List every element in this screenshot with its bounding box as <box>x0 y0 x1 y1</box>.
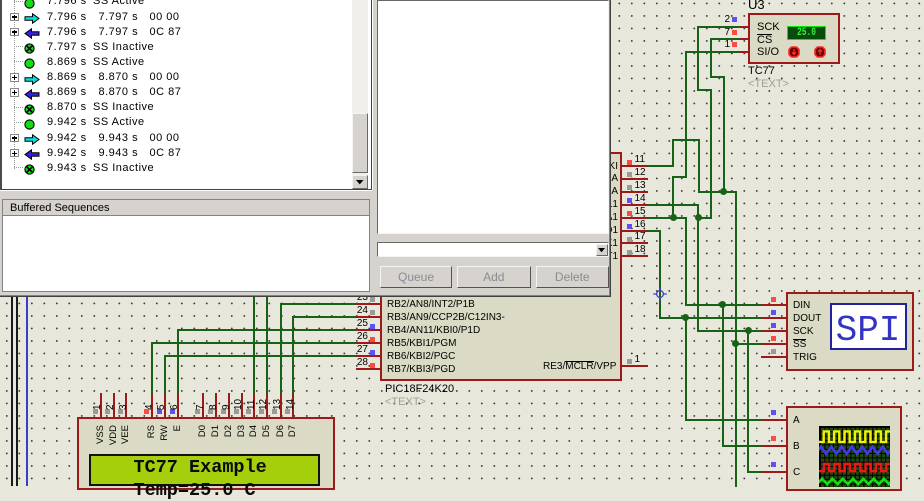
pin name LCD RS <box>147 425 157 451</box>
pin state square LCD pin 9 <box>221 409 226 414</box>
pin number TC77 pin 2 <box>700 15 730 25</box>
button Add <box>457 266 531 288</box>
pin state square PIC pin 13 <box>627 185 632 190</box>
channel C red square wave <box>819 463 890 470</box>
PIC pin label RB5 <box>387 338 456 349</box>
PIC pin label RC7/RX1/DT1 <box>417 251 618 262</box>
wire E h pin25 <box>177 329 358 331</box>
pin state square LCD pin 12 <box>259 409 264 414</box>
pin number LCD 4 <box>145 404 155 410</box>
pin number LCD 13 <box>273 398 283 409</box>
pin stub LCD pin 1 VSS <box>100 393 102 419</box>
pin stub LCD pin 4 RS <box>151 393 153 419</box>
pin state square SPI SCK <box>771 323 776 328</box>
pin state square PIC pin 16 <box>627 224 632 229</box>
junction SCK-RC3 <box>695 214 702 221</box>
pin number PIC pin 24 <box>338 306 368 316</box>
pin stub PIC pin 17 <box>621 242 648 244</box>
pin state square TC77 pin 7 <box>732 30 737 35</box>
pin stub scope C <box>761 471 788 473</box>
pin name LCD D6 <box>276 425 286 451</box>
pin stub LCD pin 13 D6 <box>280 393 282 419</box>
SPI logo text <box>830 306 907 356</box>
pin stub PIC pin 15 <box>621 217 648 219</box>
pin stub LCD pin 3 VEE <box>125 393 127 419</box>
junction SIO-RC4 <box>670 214 677 221</box>
pin state square LCD pin 13 <box>272 409 277 414</box>
pin name LCD VEE <box>121 425 131 451</box>
wire SCK c <box>697 89 712 91</box>
pin stub PIC pin 12 <box>621 178 648 180</box>
event row 9.942 s 9.943 s 0C 87 <box>2 145 354 160</box>
wire RC5 down <box>659 230 661 319</box>
pin number LCD 5 <box>157 404 167 410</box>
wire SCK e <box>697 217 712 219</box>
pin state square LCD pin 5 <box>157 409 162 414</box>
PIC pin label RB7 <box>387 364 455 375</box>
list scrollbar <box>352 0 368 189</box>
pin number PIC pin 15 <box>635 207 646 217</box>
pin state square PIC pin 1 <box>627 359 632 364</box>
PIC pin label RE3/MCLR/VPP <box>543 361 616 372</box>
event row 8.870 s SS Inactive <box>2 100 354 115</box>
wire DOUT <box>659 317 762 319</box>
LCD display body <box>77 417 335 490</box>
wire SCK a <box>697 26 741 28</box>
pin name LCD E <box>173 425 183 451</box>
wire CS d <box>723 76 725 193</box>
TC77 up button <box>814 46 826 58</box>
PIC pin label RB6 <box>387 351 455 362</box>
wire SCK b <box>697 26 699 91</box>
queue display panel <box>377 0 609 234</box>
pin state square PIC pin 24 <box>370 310 375 315</box>
event row 7.796 s 7.797 s 00 00 <box>2 9 354 24</box>
pin number LCD 9 <box>222 404 232 410</box>
TC77 down button <box>788 46 800 58</box>
pin stub LCD pin 10 D3 <box>241 393 243 419</box>
pin stub PIC pin 13 <box>621 191 648 193</box>
event row 7.797 s SS Inactive <box>2 39 354 54</box>
PIC pin label RC6/TX1/CK1 <box>417 238 618 249</box>
TC77 display reading 25.0 <box>792 28 820 39</box>
pin number LCD 8 <box>209 404 219 410</box>
scrollbar thumb <box>352 113 368 173</box>
pin stub LCD pin 8 D1 <box>215 393 217 419</box>
scrollbar down button <box>352 175 368 189</box>
wire RW v <box>164 355 166 393</box>
pin stub LCD pin 14 D7 <box>292 393 294 419</box>
scope channel label A <box>793 415 800 426</box>
wire D7 h pin24 <box>292 316 358 318</box>
PIC pin label RB4 <box>387 325 480 336</box>
event row 9.942 s 9.943 s 00 00 <box>2 130 354 145</box>
wire CS b <box>710 38 712 78</box>
SPI pin label SCK <box>793 326 814 337</box>
pin state square SPI DIN <box>771 297 776 302</box>
pin stub PIC pin 1 <box>621 365 648 367</box>
wire RC5 pin16 <box>647 230 661 232</box>
channel A yellow square wave <box>819 431 890 442</box>
junction CS-RC0 <box>720 188 727 195</box>
pin name LCD RW <box>160 425 170 451</box>
pin number TC77 pin 7 <box>700 28 730 38</box>
pin stub PIC pin 11 <box>621 165 648 167</box>
pin number LCD 14 <box>286 398 296 409</box>
pin stub PIC pin 14 <box>621 204 648 206</box>
wire SCK g SPI <box>697 330 762 332</box>
pin state square PIC pin 28 <box>370 363 375 368</box>
TC77 U3 body <box>748 13 840 64</box>
scope channel label C <box>793 467 800 478</box>
pin number PIC pin 23 <box>338 293 368 303</box>
wire SIO d <box>672 176 674 219</box>
pin state square scope C <box>771 462 776 467</box>
pin name LCD D3 <box>237 425 247 451</box>
event row 8.869 s 8.870 s 0C 87 <box>2 85 354 100</box>
wire RC0 over <box>672 139 700 141</box>
pin number PIC pin 12 <box>635 168 646 178</box>
pin name LCD VSS <box>96 425 106 451</box>
pin stub PIC pin 28 <box>356 368 381 370</box>
pin stub PIC pin 27 <box>356 355 381 357</box>
pin number LCD 10 <box>234 398 244 409</box>
pin stub LCD pin 11 D4 <box>253 393 255 419</box>
pin state square PIC pin 14 <box>627 198 632 203</box>
wire SIO b <box>685 51 687 178</box>
oscilloscope screen <box>819 426 891 488</box>
pin name LCD D0 <box>198 425 208 451</box>
pin state square LCD pin 4 <box>144 409 149 414</box>
TC77 pin label SCK <box>757 22 780 33</box>
pin number PIC pin 14 <box>635 194 646 204</box>
pin state square SPI SS <box>771 336 776 341</box>
pin name LCD VDD <box>109 425 119 451</box>
junction DOUT-scopeA <box>682 314 689 321</box>
TC77 pin label CS (overline) <box>757 34 772 46</box>
wire D7 v <box>292 316 294 394</box>
PIC pin label RB3 <box>387 312 505 323</box>
pin number LCD 12 <box>259 398 269 409</box>
wire DOUT scope <box>685 317 687 421</box>
pin state square LCD pin 2 <box>105 409 110 414</box>
wire SIO h <box>722 304 724 447</box>
SPI logo box <box>830 303 907 350</box>
pin number LCD 1 <box>93 404 103 410</box>
pin stub TC77 pin 1 <box>740 51 750 53</box>
pin state square LCD pin 14 <box>285 409 290 414</box>
pin stub LCD pin 12 D5 <box>266 393 268 419</box>
pin number PIC pin 28 <box>338 358 368 368</box>
pin state square PIC pin 26 <box>370 337 375 342</box>
scope channel label B <box>793 441 800 452</box>
wire RC0 right <box>698 191 737 193</box>
wire RC4 pin15 <box>647 217 674 219</box>
SPI debugger dialog window <box>0 0 610 296</box>
pin number PIC pin 26 <box>338 332 368 342</box>
TC77 name label <box>748 66 775 77</box>
button Delete <box>536 266 610 288</box>
pin number PIC pin 25 <box>338 319 368 329</box>
wire RC3 pin14 <box>647 204 699 206</box>
pin state square TC77 pin 1 <box>732 42 737 47</box>
pin stub scope B <box>761 445 788 447</box>
pin number PIC pin 1 <box>635 355 641 365</box>
event list box <box>0 0 372 190</box>
pin state square TC77 pin 2 <box>732 17 737 22</box>
pin stub PIC pin 25 <box>356 329 381 331</box>
pin stub LCD pin 9 D2 <box>228 393 230 419</box>
pin stub SPI TRIG <box>761 356 788 358</box>
TC77 pin label SI/O <box>757 47 779 58</box>
wire CS c <box>710 76 725 78</box>
pin state square PIC pin 12 <box>627 172 632 177</box>
pin name LCD D5 <box>262 425 272 451</box>
Buffered Sequences panel <box>2 199 370 292</box>
SPI pin label DOUT <box>793 313 821 324</box>
event row 9.943 s SS Inactive <box>2 160 354 175</box>
SPI pin label SS (overline) <box>793 339 806 350</box>
wire SIO i scopeB <box>722 445 762 447</box>
pin state square LCD pin 7 <box>195 409 200 414</box>
event row 7.796 s 7.797 s 0C 87 <box>2 24 354 39</box>
LCD line 2 text (clipped) <box>134 481 256 501</box>
PIC pin label RC3/SCK1/SCL1 <box>417 199 618 210</box>
pin stub SPI SS <box>761 343 788 345</box>
pin number PIC pin 16 <box>635 220 646 230</box>
PIC part number <box>385 384 454 395</box>
SPI debugger body <box>786 292 914 371</box>
sheet border lines bottom-left <box>11 0 13 486</box>
pin number PIC pin 18 <box>635 245 646 255</box>
junction DIN-scopeB <box>719 301 726 308</box>
pin state square SPI DOUT <box>771 310 776 315</box>
pin state square LCD pin 6 <box>170 409 175 414</box>
pin stub SPI DIN <box>761 304 788 306</box>
pin stub LCD pin 7 D0 <box>202 393 204 419</box>
pin number PIC pin 27 <box>338 345 368 355</box>
wire scopeA <box>685 419 762 421</box>
pin stub PIC pin 16 <box>621 230 648 232</box>
pin stub SPI SCK <box>761 330 788 332</box>
scope waveforms <box>819 426 890 487</box>
wire D5 v <box>266 294 268 394</box>
pin number LCD 7 <box>196 404 206 410</box>
pin state square scope B <box>771 436 776 441</box>
wire SCK d <box>710 89 712 219</box>
event row 9.942 s SS Active <box>2 115 354 130</box>
wire D4 v <box>253 294 255 394</box>
LCD screen <box>89 454 320 486</box>
event row 8.869 s 8.870 s 00 00 <box>2 70 354 85</box>
wire E v <box>177 329 179 394</box>
wire RS h pin26 <box>151 342 357 344</box>
wire SCK f <box>697 217 699 332</box>
pin stub TC77 pin 7 <box>740 38 750 40</box>
pin stub PIC pin 24 <box>356 316 381 318</box>
microcontroller U? PIC18F24K20 body <box>380 152 622 381</box>
wire SCK i scopeC <box>747 471 762 473</box>
pin state square SPI TRIG <box>771 349 776 354</box>
pin stub SPI DOUT <box>761 317 788 319</box>
wire RC0 down <box>698 139 700 193</box>
tree connector line <box>14 0 15 170</box>
pin stub TC77 pin 2 <box>740 26 750 28</box>
wire SIO g DIN <box>685 304 762 306</box>
pin number PIC pin 17 <box>635 232 646 242</box>
junction SS-SPI <box>732 340 739 347</box>
wire SCK h scope <box>747 330 749 473</box>
pin stub PIC pin 18 <box>621 255 648 257</box>
pin state square PIC pin 11 <box>627 160 632 165</box>
PIC pin label RC0/T1OSO/T13CKI <box>417 161 618 172</box>
pin stub scope A <box>761 419 788 421</box>
pin state square LCD pin 8 <box>208 409 213 414</box>
pin state square LCD pin 3 <box>118 409 123 414</box>
channel B blue triangle wave <box>815 446 892 453</box>
pin number TC77 pin 1 <box>700 40 730 50</box>
wire RC0 up <box>672 139 674 167</box>
pin state square LCD pin 10 <box>234 409 239 414</box>
wire RC3 drop <box>697 204 699 219</box>
pin number LCD 11 <box>247 399 257 409</box>
pin state square LCD pin 1 <box>93 409 98 414</box>
wire RW h pin27 <box>164 355 358 357</box>
PIC label RB1 clipped row <box>387 286 497 297</box>
pin state square PIC pin 25 <box>370 324 375 329</box>
PIC pin label RC4/SDI1/SDA1 <box>417 212 618 223</box>
wire SIO e <box>672 217 687 219</box>
pin state square PIC pin 27 <box>370 350 375 355</box>
LCD line 1 text <box>134 458 267 478</box>
wire SIO f <box>685 217 687 306</box>
pin stub LCD pin 5 RW <box>164 393 166 419</box>
pin number PIC pin 11 <box>635 155 645 165</box>
junction SCK-scopeC <box>745 327 752 334</box>
event row 7.796 s SS Active <box>2 0 354 9</box>
pin state square LCD pin 11 <box>246 409 251 414</box>
wire D6 h pin23 <box>280 303 359 305</box>
Buffered Sequences header <box>3 200 369 217</box>
SPI pin label DIN <box>793 300 810 311</box>
TC77 TEXT placeholder <box>748 79 789 90</box>
pin stub LCD pin 2 VDD <box>113 393 115 419</box>
wire D6 v <box>280 303 282 394</box>
pin number LCD 2 <box>106 404 116 410</box>
pin state square PIC pin 18 <box>627 250 632 255</box>
U3 reference label <box>748 0 765 11</box>
pin state square PIC pin 23 <box>370 297 375 302</box>
pin stub PIC pin 23 <box>356 303 381 305</box>
pin state square scope A <box>771 410 776 415</box>
pin number PIC pin 13 <box>635 181 646 191</box>
wire SS SPI <box>735 343 762 345</box>
origin marker crosshair <box>652 286 668 302</box>
PIC pin label RC5/SDO1 <box>417 225 618 236</box>
combo drop button <box>596 244 609 256</box>
pin number LCD 6 <box>170 404 180 410</box>
channel D green triangle wave <box>817 478 894 483</box>
pin number LCD 3 <box>119 404 129 410</box>
pin state square PIC pin 17 <box>627 237 632 242</box>
wire CS a <box>710 38 741 40</box>
TC77 LCD display frame <box>787 26 826 41</box>
pin name LCD D4 <box>249 425 259 451</box>
pin name LCD D2 <box>224 425 234 451</box>
pin stub LCD pin 6 E <box>177 393 179 419</box>
wire RC0 pin11 <box>647 165 674 167</box>
oscilloscope body <box>786 406 903 491</box>
entry combo box <box>377 242 609 257</box>
pin name LCD D7 <box>288 425 298 451</box>
PIC pin label RC1/T1OSI/CCP2A <box>417 173 618 184</box>
pin state square PIC pin 15 <box>627 211 632 216</box>
pin name LCD D1 <box>211 425 221 451</box>
PIC pin label RC2/CCP1/P1A <box>417 186 618 197</box>
PIC pin label RB2 <box>387 299 475 310</box>
wire RS v <box>151 342 153 394</box>
PIC TEXT placeholder <box>385 397 426 408</box>
event row 8.869 s SS Active <box>2 54 354 69</box>
wire SS down <box>735 191 737 487</box>
wire SIO c <box>672 176 687 178</box>
SPI pin label TRIG <box>793 352 817 363</box>
button Queue <box>380 266 452 288</box>
wire SIO a <box>685 51 741 53</box>
pin stub PIC pin 26 <box>356 342 381 344</box>
